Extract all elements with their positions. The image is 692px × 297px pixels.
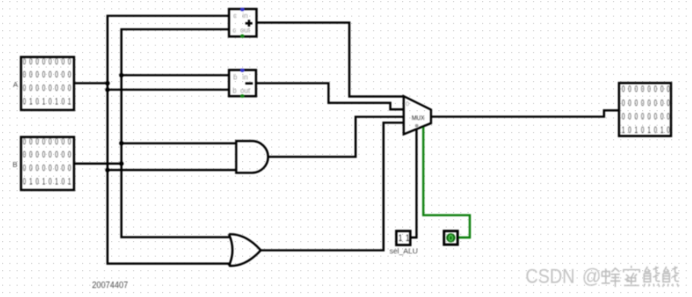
watermark glyph xiong2 <box>663 266 679 287</box>
pin carry-out (adder, green) <box>241 34 245 38</box>
pin borrow-in (subtractor, unconnected blue) <box>241 69 245 73</box>
svg-text:in: in <box>242 13 248 20</box>
junction bus A / AND branch <box>105 168 110 173</box>
AND gate U3 <box>236 141 268 173</box>
svg-text:CSDN: CSDN <box>526 265 575 287</box>
wire subtractor output to MUX input 1 <box>256 83 404 109</box>
svg-text:0: 0 <box>406 101 410 108</box>
svg-text:c: c <box>233 28 237 35</box>
wire B output to bus B <box>74 163 121 165</box>
adder U1 <box>229 9 257 37</box>
svg-text:00000000: 00000000 <box>23 56 75 67</box>
svg-text:1: 1 <box>406 232 410 243</box>
svg-text:out: out <box>240 88 250 95</box>
pin borrow-out (subtractor, green) <box>241 94 245 98</box>
wire bus A branch to subtractor lower input <box>108 89 230 91</box>
svg-text:1: 1 <box>398 232 402 243</box>
subtractor U2 <box>229 70 256 96</box>
svg-text:00000000: 00000000 <box>23 163 75 174</box>
svg-text:00000000: 00000000 <box>622 97 674 108</box>
junction bus B / B output <box>119 161 124 166</box>
svg-text:A: A <box>13 80 18 89</box>
wire AND output to MUX input 2 <box>268 117 404 157</box>
svg-text:10101010: 10101010 <box>622 125 674 136</box>
wire bus A branch to AND gate lower input <box>108 169 237 171</box>
svg-text:sel_ALU: sel_ALU <box>390 247 418 256</box>
OR gate U4 <box>229 234 261 266</box>
junction bus B / AND branch <box>119 141 124 146</box>
svg-text:MUX: MUX <box>412 115 425 122</box>
junction bus A / subtractor branch <box>105 87 110 92</box>
svg-text:01010101: 01010101 <box>23 96 75 107</box>
input pin B <box>21 136 74 190</box>
junction bus B / subtractor branch <box>119 73 124 78</box>
svg-text:b: b <box>233 88 237 95</box>
svg-text:00000000: 00000000 <box>23 136 75 147</box>
svg-text:B: B <box>13 160 18 169</box>
pin carry-in (adder, unconnected blue) <box>241 8 245 12</box>
wire bus B (vertical) with top branch to adder input2 and bottom branch to OR gate upper input <box>121 29 231 237</box>
wire adder output to MUX input 0 <box>256 23 404 97</box>
watermark glyph xiong1 <box>644 266 660 287</box>
wire MUX output to result pin <box>431 110 619 116</box>
junction bus A / A output <box>105 81 110 86</box>
wire bus A (vertical) with top branch to adder input1 and bottom branch to OR gate lower input <box>108 16 232 264</box>
wire bus B branch to AND gate upper input <box>121 142 236 144</box>
input pin A <box>21 56 74 110</box>
svg-text:in: in <box>242 74 248 81</box>
svg-text:20074407: 20074407 <box>92 280 128 291</box>
output pin result <box>619 83 673 136</box>
wire sel_ALU pin to MUX select <box>411 129 417 237</box>
svg-text:c: c <box>233 13 237 20</box>
svg-text:00000000: 00000000 <box>23 83 75 94</box>
wire OR output to MUX input 3 <box>261 123 404 251</box>
wire bus B branch to subtractor upper input <box>121 74 229 76</box>
svg-text:00000000: 00000000 <box>622 111 674 122</box>
multiplexer U5 <box>404 96 431 134</box>
wire A output to bus A <box>74 82 108 84</box>
svg-text:00000000: 00000000 <box>622 84 674 95</box>
svg-text:00000000: 00000000 <box>23 69 75 80</box>
svg-text:out: out <box>240 28 250 35</box>
svg-text:b: b <box>233 74 237 81</box>
wire enable pin to MUX enable (green) <box>423 127 470 238</box>
watermark glyph mi <box>623 266 640 286</box>
watermark glyph feng <box>602 268 621 287</box>
input pin enable (1-bit, value 0) <box>444 231 458 245</box>
svg-text:01010101: 01010101 <box>23 176 75 187</box>
input pin sel_ALU (2-bit) <box>396 231 410 245</box>
svg-text:@: @ <box>582 266 601 289</box>
svg-text:00000000: 00000000 <box>23 149 75 160</box>
